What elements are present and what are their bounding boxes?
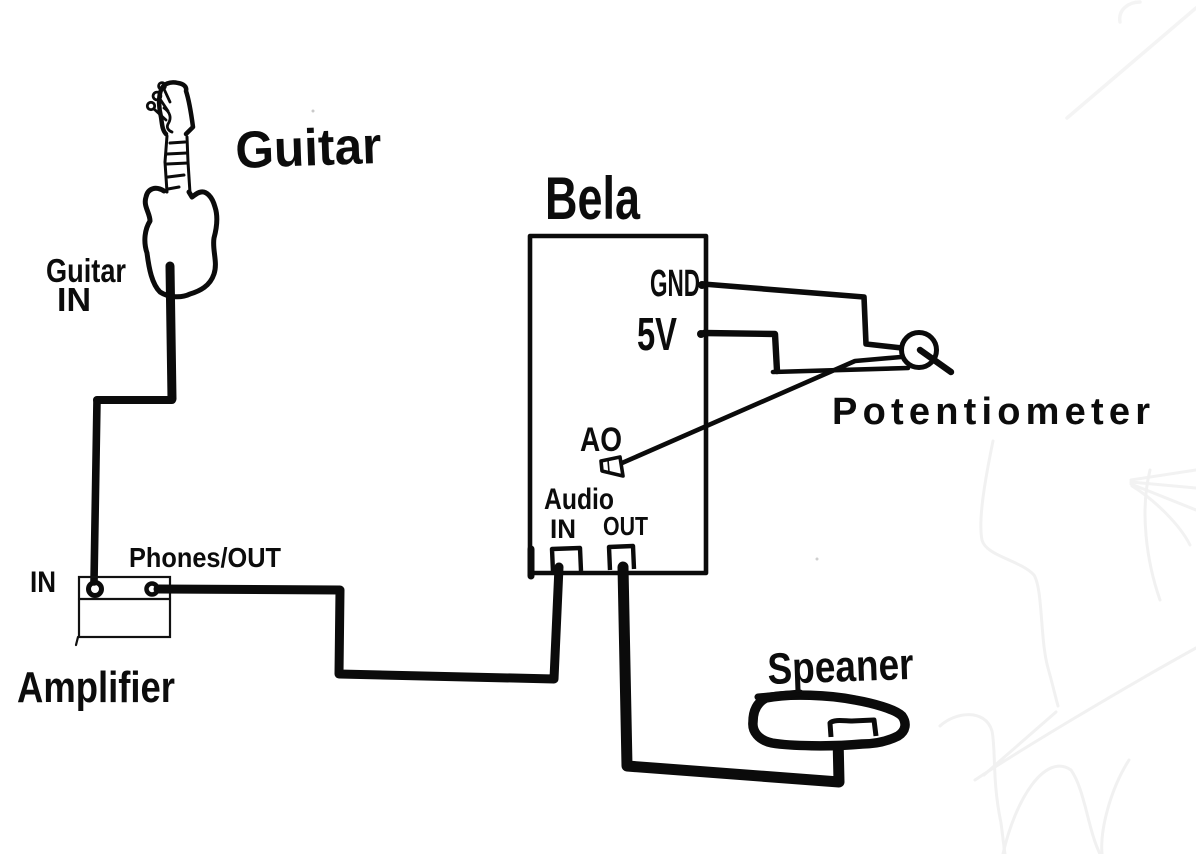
wire GND to potentiometer: [703, 284, 902, 348]
stray dot: [312, 110, 315, 113]
amplifier box: [76, 577, 170, 645]
speaker terminal box: [830, 720, 876, 737]
speaker body: [753, 695, 905, 746]
wire 5V to potentiometer: [704, 333, 777, 371]
svg-text:Potentiometer: Potentiometer: [832, 391, 1150, 433]
svg-text:Bela: Bela: [545, 165, 640, 232]
stray dot 2: [816, 558, 819, 561]
guitar headstock: [159, 82, 193, 134]
faint scribble top-right: [1067, 2, 1196, 118]
guitar neck: [165, 136, 190, 193]
svg-text:Phones/OUT: Phones/OUT: [129, 542, 281, 573]
svg-text:IN: IN: [57, 281, 91, 318]
guitar body: [145, 188, 217, 296]
wire AO to potentiometer wiper: [622, 357, 901, 463]
svg-text:IN: IN: [550, 514, 576, 544]
Bela audio OUT pin: [609, 546, 634, 570]
potentiometer wiper: [920, 350, 951, 372]
Bela left edge overdraw: [528, 549, 535, 576]
wire guitar cable: [94, 266, 172, 582]
faint scribble bottom-right: [940, 441, 1196, 854]
svg-text:OUT: OUT: [603, 511, 648, 541]
svg-text:Speaner: Speaner: [767, 640, 915, 694]
amplifier IN jack: [89, 583, 102, 596]
Bela box: [530, 236, 706, 573]
svg-text:AO: AO: [580, 421, 622, 459]
svg-text:GND: GND: [650, 263, 700, 305]
faint scribble right-middle fan: [1131, 470, 1196, 545]
node GND pin dot: [698, 281, 706, 289]
guitar tuning pegs: [147, 83, 172, 132]
svg-text:IN: IN: [30, 566, 56, 599]
wire Bela audio OUT to speaker: [623, 567, 839, 782]
speaker top-left ledge overdraw: [758, 693, 800, 697]
node 5V pin dot: [697, 330, 705, 338]
potentiometer body: [902, 333, 937, 368]
svg-text:Amplifier: Amplifier: [17, 663, 175, 712]
AO pin connector: [601, 457, 623, 476]
svg-text:5V: 5V: [637, 308, 677, 360]
wire amplifier OUT to Bela audio IN: [158, 567, 559, 679]
svg-text:Guitar: Guitar: [234, 117, 382, 180]
amplifier OUT jack: [147, 584, 158, 595]
Bela audio IN pin: [552, 548, 581, 572]
